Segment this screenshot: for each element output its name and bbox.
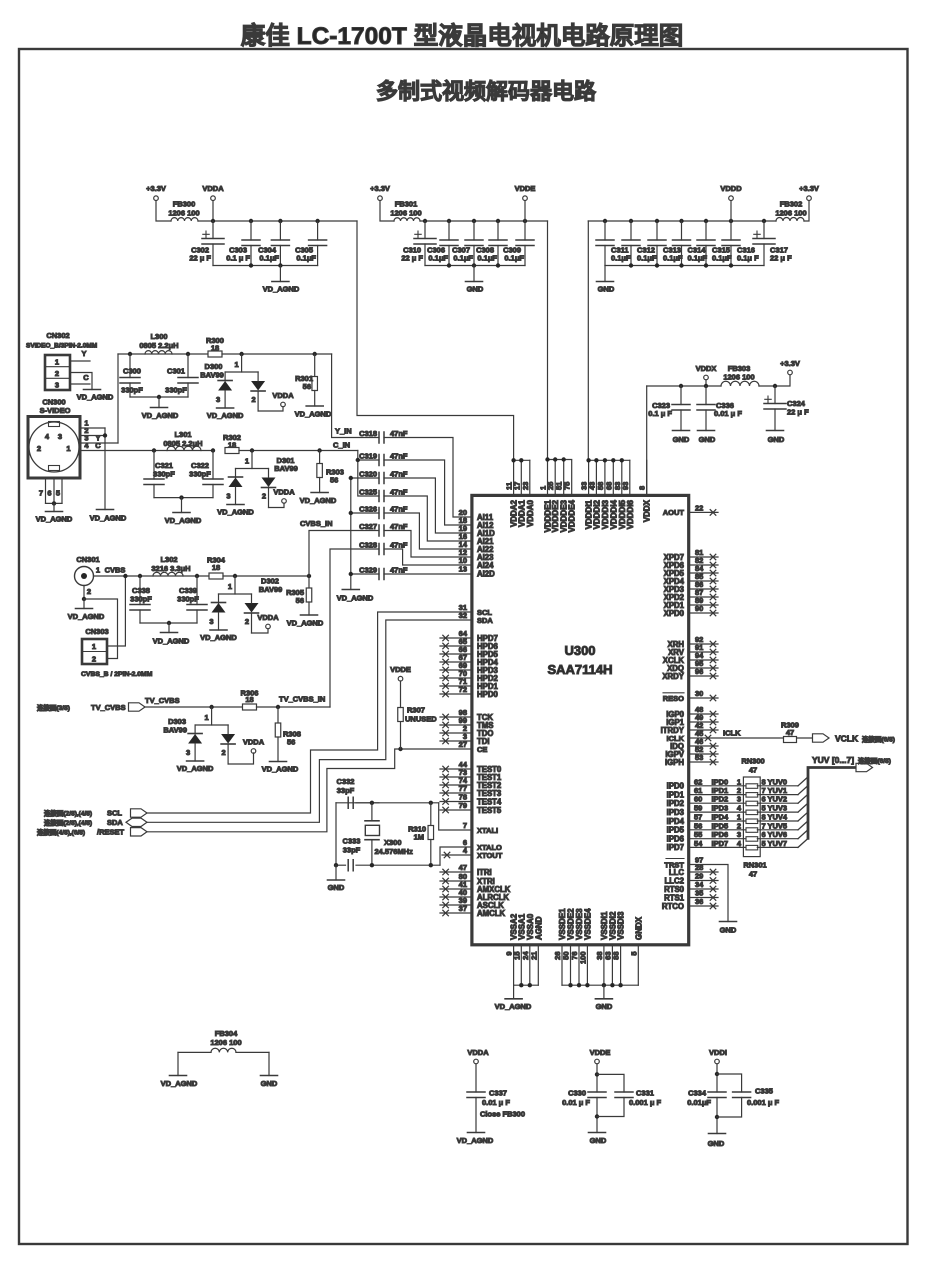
svg-text:3: 3 <box>216 395 220 404</box>
pin 100 VSSDE4 <box>586 945 588 985</box>
wire TV_CVBS_IN riser <box>330 549 379 707</box>
svg-text:1: 1 <box>737 813 741 822</box>
resistor element IPD0 <box>746 784 758 789</box>
svg-text:S-VIDEO: S-VIDEO <box>40 406 71 415</box>
ground GND <box>603 985 605 999</box>
svg-text:8: 8 <box>762 813 766 822</box>
svg-text:GND: GND <box>673 435 690 444</box>
svg-text:YUV3: YUV3 <box>768 804 788 813</box>
svg-text:GND: GND <box>590 1136 607 1145</box>
svg-text:6: 6 <box>762 795 766 804</box>
pin 51 VDDDE3 <box>563 460 565 495</box>
wire YUV3 <box>757 811 798 813</box>
svg-text:0.1μF: 0.1μF <box>637 254 657 263</box>
svg-text:VD_AGND: VD_AGND <box>68 612 105 621</box>
svg-text:VDDX: VDDX <box>643 499 652 522</box>
svg-text:75: 75 <box>563 482 572 490</box>
svg-text:IPD7: IPD7 <box>667 843 684 852</box>
pin 1 VDDDE1 <box>547 460 549 495</box>
resistor element IPD1 <box>746 793 758 798</box>
pin 60 IPD2 <box>689 802 747 804</box>
svg-text:59: 59 <box>694 804 702 813</box>
pin 3 TDI <box>440 740 472 742</box>
svg-text:IPD4: IPD4 <box>667 817 685 826</box>
capacitor C311 <box>603 219 607 223</box>
wire <box>335 803 337 865</box>
capacitor C336 <box>705 386 707 405</box>
svg-text:22: 22 <box>695 503 703 512</box>
pin 4 XTOUT <box>442 854 472 856</box>
wire XTALO <box>440 847 472 865</box>
pin 67 HPD4 <box>440 661 472 663</box>
svg-text:AMCLK: AMCLK <box>477 909 506 918</box>
resistor R307 pullup <box>398 747 402 751</box>
svg-text:3: 3 <box>58 432 62 441</box>
svg-text:VD_AGND: VD_AGND <box>495 1002 532 1011</box>
svg-text:47: 47 <box>749 766 757 775</box>
pin 87 XPD2 <box>689 596 718 598</box>
svg-text:330pF: 330pF <box>121 386 143 395</box>
svg-text:IPD5: IPD5 <box>667 826 685 835</box>
svg-text:VDDDI6: VDDDI6 <box>626 499 635 529</box>
svg-text:C320: C320 <box>359 470 377 479</box>
svg-text:VSSDI3: VSSDI3 <box>617 911 626 940</box>
wire YUV0 <box>757 785 798 787</box>
svg-text:21: 21 <box>529 952 538 960</box>
svg-text:1206 100: 1206 100 <box>775 209 806 218</box>
svg-text:330pF: 330pF <box>177 595 199 604</box>
pin 45 ICLK <box>689 737 813 739</box>
svg-text:330pF: 330pF <box>189 470 211 479</box>
capacitor C325 47nF <box>379 491 384 502</box>
svg-text:33pF: 33pF <box>343 846 361 855</box>
svg-text:CN302: CN302 <box>46 331 69 340</box>
resistor element IPD4 <box>746 819 758 824</box>
svg-text:AOUT: AOUT <box>663 508 685 517</box>
wire C_IN branch <box>358 451 379 497</box>
svg-text:5: 5 <box>762 804 766 813</box>
svg-text:1: 1 <box>66 444 70 453</box>
svg-text:C335: C335 <box>755 1087 773 1096</box>
capacitor C339 <box>195 574 199 578</box>
svg-text:YUV5: YUV5 <box>768 821 788 830</box>
ground VD_AGND <box>279 266 281 282</box>
ground VD_AGND <box>157 395 161 399</box>
svg-text:47nF: 47nF <box>390 470 408 479</box>
pin 25 VDDDE2 <box>554 460 556 495</box>
pin 70 HPD2 <box>440 677 472 679</box>
svg-text:0.1μF: 0.1μF <box>477 254 497 263</box>
svg-text:0805 2.2μH: 0805 2.2μH <box>139 341 178 350</box>
wire VSS bus <box>562 984 638 986</box>
capacitor C329 47nF <box>379 569 384 580</box>
connector flag SCL <box>131 809 148 817</box>
svg-text:VD_AGND: VD_AGND <box>457 1136 494 1145</box>
wire <box>140 622 197 624</box>
pin 55 IPD6 <box>689 838 747 840</box>
svg-text:3: 3 <box>209 617 213 626</box>
svg-text:C300: C300 <box>123 367 141 376</box>
capacitor C315 <box>704 219 708 223</box>
resistor element IPD7 <box>746 845 758 850</box>
svg-text:IPD3: IPD3 <box>667 808 685 817</box>
svg-text:CVBS_B / 2PIN-2.0MM: CVBS_B / 2PIN-2.0MM <box>81 671 153 678</box>
capacitor C302 <box>211 219 215 223</box>
svg-text:6: 6 <box>47 489 51 498</box>
capacitor C314 <box>679 219 683 223</box>
svg-text:22 μ F: 22 μ F <box>770 254 792 263</box>
pin 79 TEST5 <box>440 809 472 811</box>
ground VD_AGND <box>179 495 183 499</box>
svg-text:7: 7 <box>762 821 766 830</box>
svg-text:VDDA: VDDA <box>202 184 224 193</box>
svg-text:22 μ F: 22 μ F <box>787 408 809 417</box>
wire SCL <box>147 612 472 813</box>
svg-text:C301: C301 <box>167 367 185 376</box>
ground VD_AGND <box>177 1052 179 1075</box>
svg-text:0.1μF: 0.1μF <box>259 254 279 263</box>
svg-text:3: 3 <box>226 492 230 501</box>
diode D300 BAV99 <box>239 352 243 356</box>
pin 22 AOUT <box>689 511 718 513</box>
svg-text:0.1μF: 0.1μF <box>688 254 708 263</box>
svg-text:IPD3: IPD3 <box>712 804 729 813</box>
svg-text:VD_AGND: VD_AGND <box>153 637 190 646</box>
capacitor C307 <box>472 219 476 223</box>
svg-text:36: 36 <box>695 897 703 906</box>
svg-text:C327: C327 <box>359 522 377 531</box>
pin 71 HPD1 <box>440 685 472 687</box>
pin 9 VSSA2 <box>513 945 515 985</box>
ground VD_AGND <box>468 1132 485 1134</box>
svg-text:56: 56 <box>303 382 311 391</box>
svg-text:BAV99: BAV99 <box>163 726 187 735</box>
ground VD_AGND <box>311 492 328 494</box>
svg-text:VDDE: VDDE <box>590 1048 611 1057</box>
svg-text:+3.3V: +3.3V <box>146 184 166 193</box>
capacitor C330 <box>596 1064 598 1092</box>
wire pin1 <box>80 427 105 429</box>
pin 81 XPD7 <box>689 556 718 558</box>
svg-text:6: 6 <box>762 830 766 839</box>
svg-text:FB300: FB300 <box>173 200 196 209</box>
svg-text:47nF: 47nF <box>390 566 408 575</box>
svg-text:R307: R307 <box>407 706 425 715</box>
svg-text:1: 1 <box>55 358 59 367</box>
svg-text:1M: 1M <box>414 833 424 842</box>
svg-text:VD_AGND: VD_AGND <box>295 410 332 419</box>
pin 58 VDDDI3 <box>604 460 606 495</box>
svg-text:TV_CVBS: TV_CVBS <box>145 696 180 705</box>
svg-text:47nF: 47nF <box>390 505 408 514</box>
svg-text:1: 1 <box>205 713 209 722</box>
resistor R303 <box>317 448 321 452</box>
svg-text:56: 56 <box>287 738 295 747</box>
svg-text:GND: GND <box>768 435 785 444</box>
capacitor C310 <box>423 219 427 223</box>
svg-text:VD_AGND: VD_AGND <box>165 516 202 525</box>
svg-text:VCLK: VCLK <box>835 734 859 744</box>
svg-text:BAV99: BAV99 <box>274 464 298 473</box>
ground VD_AGND <box>301 614 318 616</box>
svg-text:C334: C334 <box>688 1089 707 1098</box>
svg-text:96: 96 <box>695 667 703 676</box>
wire <box>239 450 358 452</box>
svg-text:3216 3.3μH: 3216 3.3μH <box>151 564 190 573</box>
capacitor C337 <box>475 1064 477 1092</box>
svg-text:0.1μF: 0.1μF <box>504 254 524 263</box>
pin 28 LLC <box>689 871 718 873</box>
ground VD_AGND <box>97 509 114 511</box>
pin 30 RESO <box>689 697 718 699</box>
svg-text:0.01μF: 0.01μF <box>687 1098 711 1107</box>
svg-text:54: 54 <box>694 839 703 848</box>
wire <box>357 221 514 460</box>
wire pins 1-2 to ground <box>104 428 106 510</box>
pin 73 TEST1 <box>440 776 472 778</box>
svg-text:ICLK: ICLK <box>667 734 685 743</box>
ground VD_AGND <box>83 599 85 609</box>
svg-text:VSSDE4: VSSDE4 <box>583 908 592 940</box>
svg-text:0.1μF: 0.1μF <box>663 254 683 263</box>
svg-text:IPD2: IPD2 <box>667 799 685 808</box>
svg-text:37: 37 <box>459 904 467 913</box>
svg-text:YUV2: YUV2 <box>768 795 788 804</box>
diode D301 BAV99 <box>250 448 254 452</box>
svg-text:57: 57 <box>694 813 702 822</box>
svg-text:18: 18 <box>212 563 220 572</box>
wire YUV5 <box>757 829 798 831</box>
ground GND <box>589 1132 606 1134</box>
svg-text:0.001 μ F: 0.001 μ F <box>747 1098 780 1107</box>
svg-text:IPD0: IPD0 <box>667 782 685 791</box>
svg-text:47nF: 47nF <box>390 488 408 497</box>
resistor network RN300 <box>743 777 760 857</box>
pin 57 IPD4 <box>689 820 747 822</box>
wire VDDD rail <box>588 220 776 222</box>
svg-text:1: 1 <box>228 582 232 591</box>
wire VDDE bus <box>548 459 572 461</box>
svg-text:1206 100: 1206 100 <box>390 209 421 218</box>
capacitor C319 47nF <box>379 455 384 466</box>
svg-text:5: 5 <box>629 952 638 956</box>
svg-text:3: 3 <box>186 748 190 757</box>
wire <box>605 265 764 267</box>
svg-text:GND: GND <box>596 1002 613 1011</box>
capacitor C338 <box>138 574 142 578</box>
svg-text:VD_AGND: VD_AGND <box>287 619 324 628</box>
pin 84 XPD5 <box>689 572 718 574</box>
pin 96 XRDY <box>689 675 718 677</box>
svg-text:22 μ F: 22 μ F <box>401 254 423 263</box>
pin 49 IGP1 <box>689 721 718 723</box>
svg-text:VD_AGND: VD_AGND <box>77 393 114 402</box>
capacitor C320 47nF <box>379 473 384 484</box>
pin 91 XRV <box>689 651 718 653</box>
pin 50 VSSDE2 <box>570 945 572 985</box>
svg-text:CN301: CN301 <box>76 555 99 564</box>
svg-text:GND: GND <box>328 883 345 892</box>
svg-text:56: 56 <box>694 821 702 830</box>
svg-text:IPD5: IPD5 <box>712 821 729 830</box>
svg-text:FB301: FB301 <box>395 200 418 209</box>
pin 8 VDDX <box>646 460 648 495</box>
svg-text:32: 32 <box>459 611 467 620</box>
svg-text:C337: C337 <box>489 1089 507 1098</box>
svg-text:2: 2 <box>92 655 96 664</box>
wire to ground <box>70 373 92 390</box>
ground VD_AGND <box>167 621 171 625</box>
wire C input rail <box>154 450 213 452</box>
svg-text:连接图(6/8): 连接图(6/8) <box>858 756 891 765</box>
wire VDDE rail <box>420 220 548 222</box>
ground GND <box>698 430 715 432</box>
svg-text:47nF: 47nF <box>390 452 408 461</box>
svg-text:VDDDE4: VDDDE4 <box>568 499 577 532</box>
connector flag YUV <box>856 763 873 771</box>
ground VD_AGND <box>53 503 55 511</box>
svg-text:C332: C332 <box>337 777 355 786</box>
pin 17 VDDA1 <box>520 460 522 495</box>
svg-text:62: 62 <box>694 777 702 786</box>
pin 92 XRH <box>689 643 718 645</box>
svg-text:VD_AGND: VD_AGND <box>337 594 374 603</box>
wire <box>154 497 213 499</box>
svg-text:330pF: 330pF <box>153 470 175 479</box>
pin 62 IPD0 <box>689 785 747 787</box>
svg-text:330pF: 330pF <box>165 386 187 395</box>
svg-text:1206 100: 1206 100 <box>723 373 754 382</box>
svg-text:XTALI: XTALI <box>477 826 498 835</box>
pin 40 ALRCLK <box>440 896 472 898</box>
terminal +3.3V <box>804 201 809 222</box>
wire /RESET to CE <box>147 749 472 832</box>
capacitor C306 <box>447 219 451 223</box>
svg-text:0.01 μ F: 0.01 μ F <box>482 1098 510 1107</box>
svg-text:连接图(2/8),(4/8): 连接图(2/8),(4/8) <box>44 809 92 818</box>
pin 47 ITRI <box>440 871 472 873</box>
pin 86 XPD3 <box>689 588 718 590</box>
svg-text:多制式视频解码器电路: 多制式视频解码器电路 <box>376 79 597 104</box>
diode D302 BAV99 <box>233 574 237 578</box>
wire <box>257 706 331 708</box>
svg-text:13: 13 <box>459 565 467 574</box>
pin 29 LLC2 <box>689 880 718 882</box>
resistor element IPD5 <box>746 828 758 833</box>
svg-text:SCL: SCL <box>107 809 122 818</box>
resistor R301 <box>313 352 317 356</box>
svg-text:AI2D: AI2D <box>477 569 495 578</box>
svg-text:VDDD: VDDD <box>720 184 742 193</box>
svg-text:VD_AGND: VD_AGND <box>300 496 337 505</box>
svg-text:GND: GND <box>699 435 716 444</box>
svg-text:C_IN: C_IN <box>333 441 350 450</box>
pin 88 VSSDI3 <box>620 945 622 985</box>
pin 26 VSSDE1 <box>561 945 563 985</box>
svg-text:5: 5 <box>56 489 60 498</box>
svg-text:CVBS: CVBS <box>105 566 126 575</box>
pin 21 AGND <box>537 945 539 985</box>
pin 52 IGPV <box>689 753 718 755</box>
crystal X300 <box>371 803 373 821</box>
svg-text:VD_AGND: VD_AGND <box>217 508 254 517</box>
capacitor C331 <box>597 1074 624 1092</box>
wire SDA <box>147 620 472 822</box>
svg-text:CVBS_IN: CVBS_IN <box>300 519 333 528</box>
svg-text:VDDA: VDDA <box>243 738 265 747</box>
pin 74 TEST2 <box>440 784 472 786</box>
wire C <box>70 383 90 385</box>
svg-text:+3.3V: +3.3V <box>799 184 819 193</box>
svg-text:Y: Y <box>81 349 86 358</box>
svg-text:GND: GND <box>598 285 615 294</box>
wire <box>223 575 309 577</box>
svg-text:2: 2 <box>737 821 741 830</box>
wire CVBS rail <box>140 575 209 577</box>
diode D303 BAV99 <box>209 705 213 709</box>
svg-text:47nF: 47nF <box>390 541 408 550</box>
resistor element IPD2 <box>746 801 758 806</box>
svg-text:5: 5 <box>762 839 766 848</box>
svg-text:1: 1 <box>737 777 741 786</box>
wire <box>380 201 394 222</box>
pin 75 VDDDE4 <box>571 460 573 495</box>
svg-text:3: 3 <box>55 381 59 390</box>
ground VD_AGND <box>342 589 359 591</box>
svg-text:TRST: TRST <box>664 860 684 869</box>
capacitor C334 <box>716 1064 718 1092</box>
pin 59 IPD3 <box>689 811 747 813</box>
svg-text:L301: L301 <box>174 430 191 439</box>
pin 82 XPD6 <box>689 564 718 566</box>
ground GND <box>673 430 690 432</box>
svg-text:88: 88 <box>612 952 621 960</box>
capacitor C309 <box>523 219 527 223</box>
svg-text:47: 47 <box>459 863 467 872</box>
pin 89 XPD1 <box>689 604 718 606</box>
resistor element IPD3 <box>746 810 758 815</box>
resistor R309 <box>784 737 797 743</box>
resistor element IPD6 <box>746 837 758 842</box>
svg-text:CN303: CN303 <box>85 627 108 636</box>
svg-text:1206 100: 1206 100 <box>210 1038 241 1047</box>
svg-text:BAV99: BAV99 <box>259 585 283 594</box>
pin 72 HPD0 <box>440 693 472 695</box>
svg-text:VDDE: VDDE <box>515 184 536 193</box>
pin 77 TEST3 <box>440 792 472 794</box>
svg-text:RN300: RN300 <box>741 757 764 766</box>
svg-text:1: 1 <box>92 642 96 651</box>
pin 46 IDQ <box>689 745 718 747</box>
svg-text:VD_AGND: VD_AGND <box>161 1079 198 1088</box>
wire Y <box>70 360 90 362</box>
svg-text:VD_AGND: VD_AGND <box>207 411 244 420</box>
svg-text:VDDE: VDDE <box>390 665 411 674</box>
svg-text:56: 56 <box>330 476 338 485</box>
pin 76 VSSDE3 <box>578 945 580 985</box>
svg-text:60: 60 <box>694 795 702 804</box>
svg-text:33pF: 33pF <box>337 786 355 795</box>
pin 23 VDDA0 <box>529 460 531 495</box>
svg-text:72: 72 <box>459 685 467 694</box>
pin 66 HPD5 <box>440 653 472 655</box>
pin 2 TDO <box>440 732 472 734</box>
capacitor C301 <box>186 352 190 356</box>
bus YUV <box>808 768 856 839</box>
svg-text:C329: C329 <box>359 566 377 575</box>
pin 95 XDQ <box>689 667 718 669</box>
svg-text:VDDA: VDDA <box>467 1048 489 1057</box>
